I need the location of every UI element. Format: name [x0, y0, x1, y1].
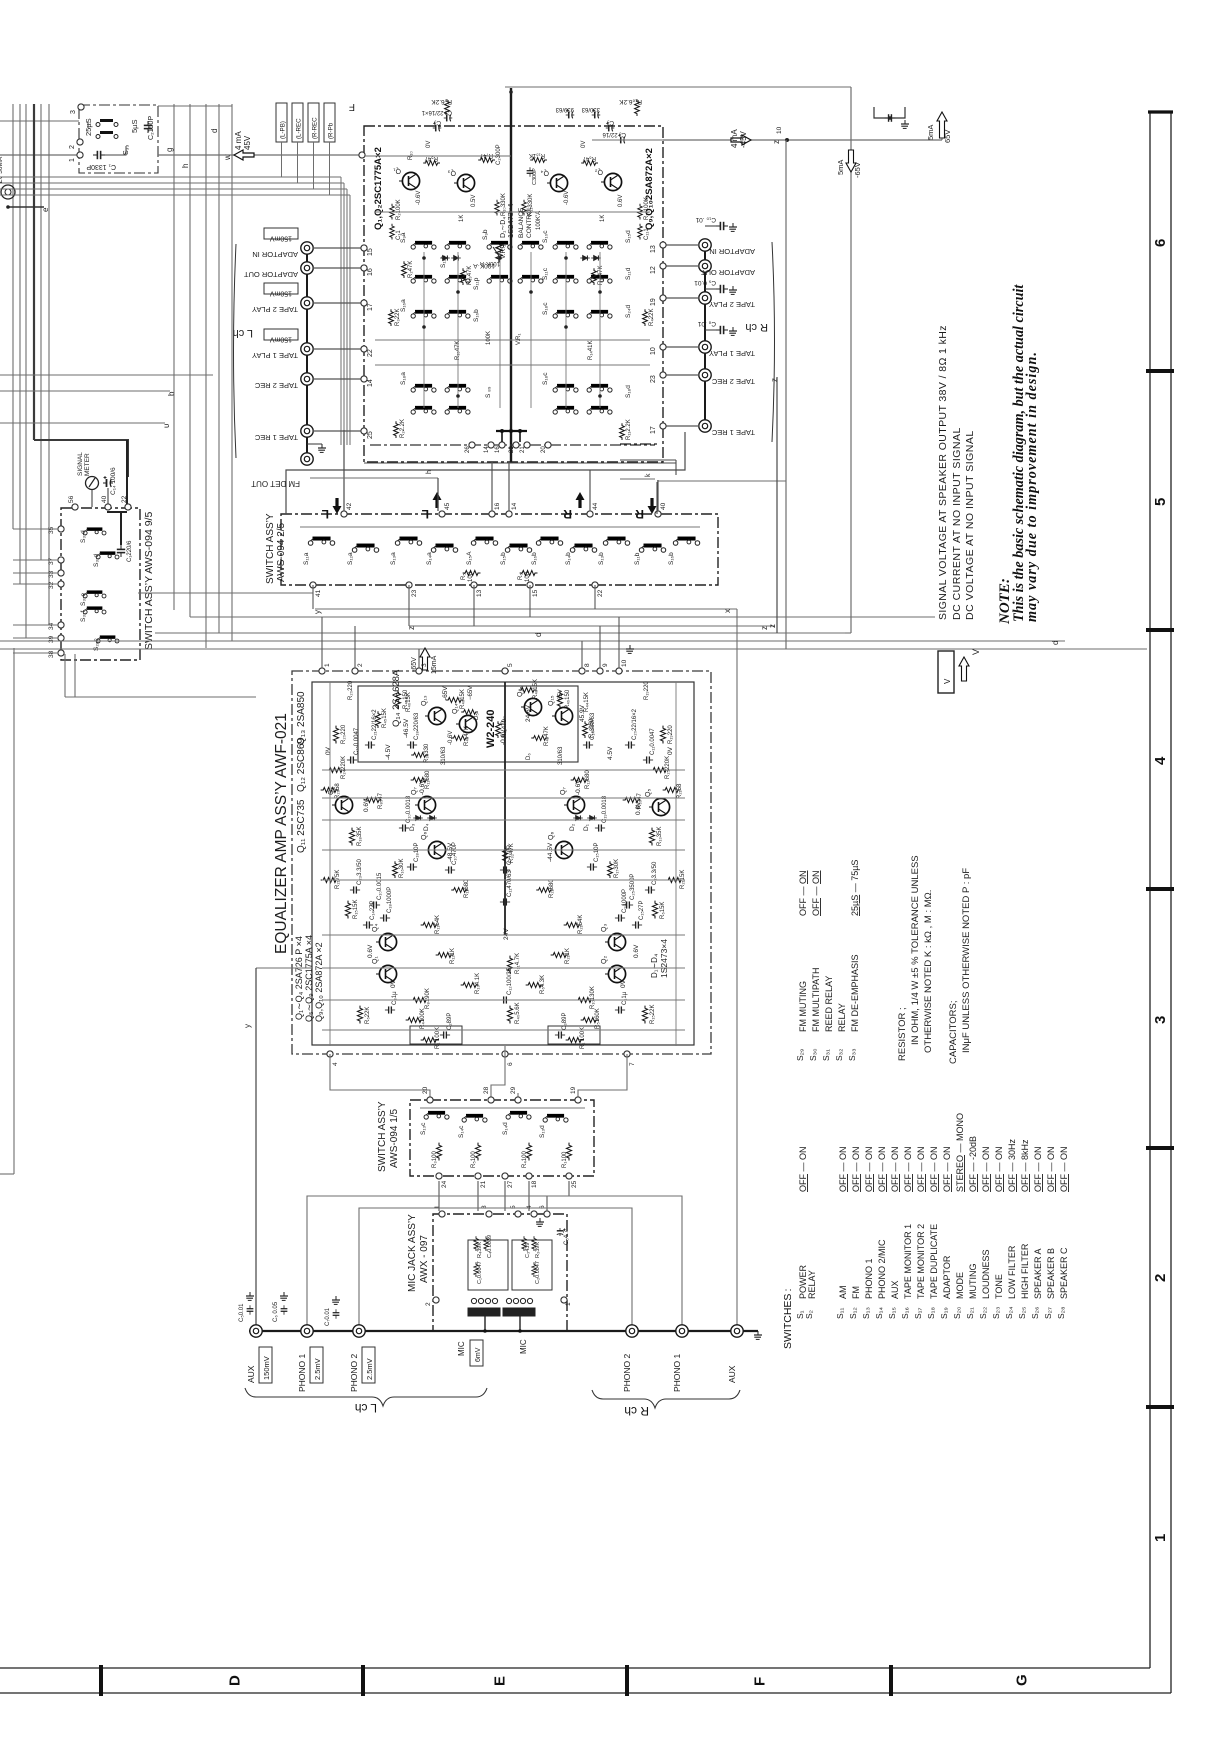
wire [13, 583, 58, 585]
resistor R&#8323;&#8 [507, 956, 512, 974]
svg-text:Q₅: Q₅ [645, 789, 652, 797]
svg-text:R₃₈330: R₃₈330 [424, 743, 430, 763]
svg-text:S₂₈: S₂₈ [1056, 1306, 1066, 1319]
wire [675, 460, 677, 475]
svg-text:RELAY: RELAY [807, 1270, 817, 1299]
wire [158, 105, 232, 107]
wire [322, 1029, 685, 1031]
transistor Q3 [605, 933, 626, 950]
node 16 [489, 511, 495, 517]
svg-text:-0.6V: -0.6V [500, 729, 507, 745]
node 32 [58, 581, 64, 587]
capacitor C&#8321;&# [595, 824, 605, 831]
svg-text:R₇47: R₇47 [479, 152, 493, 158]
wire [589, 470, 591, 511]
wire [477, 1181, 479, 1211]
label 2.5mV [310, 1347, 323, 1383]
svg-text:C₄ 22/16×1: C₄ 22/16×1 [421, 109, 452, 115]
switch contact [587, 275, 612, 283]
svg-text:S₁₄: S₁₄ [874, 1306, 884, 1319]
node 11 [359, 152, 365, 158]
wire [375, 339, 650, 341]
wire [322, 999, 685, 1001]
svg-text:d: d [534, 633, 543, 637]
diode [451, 255, 461, 260]
diode D1 [587, 815, 597, 820]
svg-text:Q₆: Q₆ [548, 832, 555, 840]
wire [313, 430, 364, 432]
svg-text:REED RELAY: REED RELAY [824, 976, 834, 1032]
node 22 [361, 346, 367, 352]
resistor R&#8321; [522, 200, 527, 216]
svg-text:S₁₅b: S₁₅b [500, 552, 507, 565]
resistor R&#8324;&#8 [507, 1006, 512, 1024]
transistor Q14 [456, 715, 477, 732]
svg-text:19: 19 [570, 1086, 577, 1094]
resistor R&#8321; [638, 204, 643, 220]
svg-text:S₃₁: S₃₁ [821, 1049, 831, 1061]
svg-text:150mV: 150mV [262, 1356, 271, 1380]
wire [322, 879, 685, 881]
svg-text:b: b [167, 391, 176, 396]
node 16 [499, 442, 505, 448]
wire [423, 252, 425, 408]
node 39 [58, 635, 64, 641]
diode D4 [427, 815, 437, 820]
wire [364, 462, 676, 464]
svg-text:C₂0.0047: C₂0.0047 [535, 1261, 541, 1284]
signal arrow R [648, 498, 657, 514]
svg-text:−65V: −65V [468, 686, 474, 700]
switch contact [445, 275, 470, 283]
switch contact [518, 275, 543, 283]
svg-text:27: 27 [507, 1180, 514, 1188]
svg-text:Q₁,Q₂2SC1775A×2: Q₁,Q₂2SC1775A×2 [373, 147, 384, 230]
wire [8, 206, 44, 208]
wire [599, 252, 601, 408]
svg-text:Q₁: Q₁ [393, 167, 401, 174]
svg-text:0V: 0V [325, 746, 332, 755]
svg-text:2: 2 [69, 145, 76, 149]
svg-text:R₃22K: R₃22K [395, 309, 401, 326]
svg-text:R₁₃4.1K: R₁₃4.1K [475, 973, 481, 994]
svg-text:R₁₉220: R₁₉220 [644, 681, 650, 700]
transistor Q1 [376, 965, 397, 982]
svg-text:S₂: S₂ [804, 1310, 814, 1319]
resistor R&#8321;&#8 [411, 777, 429, 782]
junction [529, 290, 533, 294]
capacitor 0.01 [716, 285, 728, 293]
svg-text:S₃₂e: S₃₂e [80, 592, 87, 606]
switch contact [487, 275, 512, 283]
svg-text:15: 15 [532, 589, 539, 597]
resistor R&#8321;&#8 [349, 828, 354, 846]
svg-text:y: y [313, 610, 322, 614]
svg-text:R₂₅220K: R₂₅220K [665, 756, 671, 779]
node 40 [105, 504, 111, 510]
svg-text:1S2473×4: 1S2473×4 [506, 204, 515, 238]
svg-text:S₁₁d: S₁₁d [625, 267, 632, 280]
svg-text:3: 3 [70, 110, 77, 114]
svg-text:TAPE 2 REC: TAPE 2 REC [711, 377, 755, 386]
net label (R-REC [308, 103, 319, 142]
resistor R&#8328;190 [411, 997, 429, 1002]
junction [456, 290, 460, 294]
resistor R&#8324;& [583, 721, 588, 738]
switch contact [411, 275, 436, 283]
jack TAPE 2 PLAY L [301, 297, 313, 309]
node 10 [616, 668, 622, 674]
node 1 [439, 1211, 445, 1217]
brace L ch [245, 1388, 487, 1406]
node 42 [341, 511, 347, 517]
svg-text:33: 33 [48, 570, 55, 578]
svg-text:5: 5 [507, 663, 514, 667]
svg-text:DC CURRENT AT NO INPUT SI: DC CURRENT AT NO INPUT SIGNAL [951, 427, 963, 620]
svg-text:100K: 100K [486, 331, 492, 345]
jack AUX [731, 1325, 743, 1337]
part C&#8323; [522, 1236, 526, 1251]
wire [496, 430, 527, 432]
wire [13, 572, 58, 574]
svg-text:22: 22 [597, 589, 604, 597]
svg-text:34: 34 [48, 622, 55, 630]
wire [663, 346, 699, 348]
switch contact [553, 384, 578, 392]
wire [329, 682, 331, 1046]
svg-text:13: 13 [476, 589, 483, 597]
node 23 [660, 372, 666, 378]
node 9 [597, 668, 603, 674]
svg-text:LV 30MA: LV 30MA [0, 156, 4, 183]
resistor R&#8321;&#8 [571, 777, 589, 782]
svg-text:5mA: 5mA [836, 160, 845, 175]
capacitor C&#8322;&# [365, 741, 375, 748]
node 18 [526, 1173, 532, 1179]
svg-text:OFF — ON: OFF — ON [994, 1146, 1004, 1192]
svg-text:4 mA: 4 mA [234, 131, 243, 150]
switch S13c [424, 1111, 449, 1119]
resistor R&#8324;100 [406, 1017, 424, 1022]
svg-text:0.6V: 0.6V [363, 798, 370, 812]
svg-text:35: 35 [48, 526, 55, 534]
resistor R&#8322;&#8 [663, 787, 681, 792]
node 19 [575, 1097, 581, 1103]
resistor R6 100 [520, 570, 538, 575]
resistor R&#8322; [390, 204, 395, 220]
svg-text:OFF — ON: OFF — ON [1033, 1146, 1043, 1192]
svg-text:Q₆: Q₆ [421, 832, 428, 840]
svg-text:z: z [407, 626, 416, 630]
svg-text:R₁₀1K: R₁₀1K [529, 152, 545, 158]
svg-text:2: 2 [357, 663, 364, 667]
svg-text:6: 6 [1152, 239, 1169, 247]
capacitor C5 4.7 [557, 1228, 566, 1236]
svg-text:Q₅∼Q₉ 2SC1775A ×4: Q₅∼Q₉ 2SC1775A ×4 [304, 935, 314, 1022]
svg-text:S₃₂f: S₃₂f [80, 610, 87, 622]
mic amp sub-board L [468, 1240, 508, 1290]
wire [329, 142, 331, 195]
feedback network box L [410, 1026, 462, 1044]
wire [34, 440, 128, 477]
capacitor C2 150P [144, 121, 152, 133]
svg-text:24.6V: 24.6V [525, 704, 532, 722]
wire [343, 183, 345, 445]
svg-text:R₃39K: R₃39K [535, 1242, 541, 1258]
node 2 [352, 668, 358, 674]
svg-text:25: 25 [571, 1180, 578, 1188]
wire [354, 626, 356, 668]
svg-text:AM: AM [838, 1286, 848, 1300]
wire [420, 1107, 585, 1109]
wire [205, 104, 207, 648]
switch S32e [83, 590, 106, 598]
diode D3 [413, 815, 423, 820]
svg-text:65V: 65V [558, 689, 564, 700]
wire [346, 189, 348, 445]
switch S33 contact b [96, 131, 118, 139]
wire [663, 265, 699, 267]
wire [107, 512, 127, 545]
FM de-emphasis assembly box [79, 105, 158, 173]
capacitor C&#8321;&# [587, 863, 597, 870]
svg-text:C₁ 1330P: C₁ 1330P [86, 163, 116, 170]
wire Z [409, 625, 775, 627]
node 3 [416, 668, 422, 674]
wire [519, 431, 521, 442]
node 6 [544, 1211, 550, 1217]
svg-text:C₁220/6: C₁220/6 [127, 540, 133, 562]
svg-text:Q₂: Q₂ [595, 168, 603, 175]
capacitor supply filter [874, 107, 905, 118]
resistor R&#8324;& [496, 721, 501, 738]
capacitor C&#8321;&# [583, 741, 593, 748]
svg-text:0.6V: 0.6V [618, 195, 624, 207]
svg-text:-45V: -45V [739, 130, 748, 148]
svg-text:0V: 0V [667, 746, 674, 755]
svg-text:2: 2 [425, 1302, 432, 1306]
svg-text:C₅0.01: C₅0.01 [239, 1303, 245, 1322]
wire [286, 432, 685, 514]
svg-text:0V: 0V [581, 141, 587, 148]
wire d [155, 632, 845, 634]
capacitor C&#8324; [444, 112, 453, 121]
svg-text:21: 21 [480, 1180, 487, 1188]
svg-text:14: 14 [511, 502, 518, 510]
svg-text:STEREO — MONO: STEREO — MONO [955, 1113, 965, 1192]
wire Z vertical 2 [776, 377, 778, 633]
svg-text:TAPE DUPLICATE: TAPE DUPLICATE [929, 1224, 939, 1299]
resistor R&#8326;15K [652, 901, 657, 919]
transistor Q4 [376, 933, 397, 950]
svg-text:-48.5V: -48.5V [447, 842, 454, 862]
svg-text:OFF — ON: OFF — ON [838, 1146, 848, 1192]
mic connector L [468, 1298, 500, 1316]
capacitor C&#8329;10 [615, 914, 625, 921]
svg-text:AWS-094 2/5: AWS-094 2/5 [276, 522, 287, 582]
node 38 [58, 650, 64, 656]
svg-text:R₆: R₆ [518, 573, 524, 580]
svg-text:R₆4.3K: R₆4.3K [540, 975, 546, 994]
svg-text:OFF — ON: OFF — ON [981, 1146, 991, 1192]
svg-text:100: 100 [525, 571, 531, 582]
wire meter feed [126, 440, 128, 507]
svg-text:C₁₁0.0047: C₁₁0.0047 [650, 728, 656, 755]
svg-text:R₁₈100K: R₁₈100K [644, 197, 650, 220]
svg-text:24V: 24V [503, 928, 510, 940]
svg-text:R₂₄220K: R₂₄220K [341, 756, 347, 779]
svg-text:S₁₁b: S₁₁b [634, 552, 641, 565]
wire [675, 682, 677, 1046]
resistor R&#8324;& [451, 736, 468, 741]
resistor R&#8321; 10 [421, 1037, 439, 1042]
svg-text:S₁₆b: S₁₆b [473, 309, 480, 322]
node 1 [319, 668, 325, 674]
resistor R&#8324;& [531, 736, 548, 741]
svg-text:40: 40 [101, 495, 108, 503]
svg-text:L ch: L ch [233, 327, 253, 339]
svg-text:d: d [1051, 641, 1060, 645]
wire [231, 104, 233, 641]
node 5 [502, 668, 508, 674]
svg-text:(L-PB): (L-PB) [280, 121, 287, 139]
label 2.5mV [362, 1347, 375, 1383]
capacitor C&#8322;&# [350, 886, 360, 893]
svg-text:Q₃: Q₃ [601, 924, 608, 932]
wire [40, 104, 42, 560]
wire [0, 648, 1147, 650]
node 28 [488, 1097, 494, 1103]
svg-text:SPEAKER C: SPEAKER C [1059, 1247, 1069, 1299]
resistor R&#8328;&#8 [364, 797, 382, 802]
svg-text:R₄₅15K: R₄₅15K [382, 708, 388, 728]
svg-text:OFF — ON: OFF — ON [1046, 1146, 1056, 1192]
svg-text:R₄₉150: R₄₉150 [565, 689, 571, 709]
jack ADAPTOR OUT L [301, 262, 313, 274]
svg-text:-4.5V: -4.5V [385, 744, 392, 760]
mic connector R [503, 1298, 535, 1316]
svg-text:Q₁₁ 2SC735: Q₁₁ 2SC735 [296, 799, 307, 853]
wire [74, 654, 76, 697]
switch S13d [543, 1114, 568, 1122]
svg-text:R: R [563, 507, 572, 521]
capacitor C&#8325; [606, 122, 615, 131]
svg-text:C₁₈220/63: C₁₈220/63 [414, 712, 420, 740]
wire [663, 374, 699, 376]
svg-text:S₁₈: S₁₈ [926, 1306, 936, 1319]
wire [297, 142, 299, 183]
resistor R&#8322;&#8 [321, 787, 339, 792]
svg-text:Q₇: Q₇ [411, 787, 418, 795]
svg-text:d: d [210, 129, 219, 133]
wire [173, 104, 175, 610]
switch S15A [471, 537, 497, 546]
svg-text:R₄₈15K: R₄₈15K [533, 679, 539, 699]
wire [13, 652, 58, 654]
wire [618, 617, 620, 668]
svg-text:29: 29 [510, 1086, 517, 1094]
junction [498, 256, 502, 260]
wire [87, 121, 89, 128]
wire [484, 1316, 486, 1331]
resistor R&#8324;&#8 [519, 687, 537, 692]
svg-text:C₁₈10P: C₁₈10P [414, 842, 420, 862]
svg-text:C₃1μ: C₃1μ [392, 991, 398, 1005]
svg-text:PHONO 2: PHONO 2 [349, 1353, 359, 1392]
svg-text:C₂150P: C₂150P [148, 116, 155, 140]
svg-text:OFF — 30Hz: OFF — 30Hz [1007, 1138, 1017, 1192]
svg-text:C₂300P: C₂300P [496, 144, 502, 165]
resistor R&#8321;& [393, 861, 398, 878]
node 40 [655, 511, 661, 517]
capacitor .01 [716, 326, 728, 334]
capacitor C6 0.05 [281, 1305, 288, 1315]
wire h [310, 477, 438, 479]
node 4 [327, 1051, 333, 1057]
node 10 [660, 344, 666, 350]
svg-text:C₁₄ 100/6: C₁₄ 100/6 [110, 467, 117, 495]
svg-text:C₁₁470/63: C₁₁470/63 [507, 870, 513, 897]
node 8 [579, 668, 585, 674]
wire [620, 478, 655, 480]
svg-text:2.5mV: 2.5mV [365, 1358, 374, 1380]
svg-text:υ: υ [162, 424, 171, 428]
capacitor C&#8321;&# [632, 921, 642, 928]
svg-text:C300P: C300P [532, 168, 538, 185]
svg-text:C₉ 0.01: C₉ 0.01 [694, 279, 716, 286]
svg-text:S₁₆b: S₁₆b [668, 552, 675, 565]
svg-text:14: 14 [484, 446, 490, 453]
connector LV 30mA [1, 185, 15, 199]
switch contact [487, 241, 512, 249]
svg-text:OFF — ON: OFF — ON [851, 1146, 861, 1192]
svg-text:6mV: 6mV [475, 1347, 482, 1362]
svg-text:TONE: TONE [994, 1274, 1004, 1299]
svg-text:MODE: MODE [955, 1272, 965, 1299]
transistor Q5 [332, 796, 353, 813]
svg-text:37: 37 [48, 557, 55, 565]
svg-text:OFF — ON: OFF — ON [890, 1146, 900, 1192]
resistor R&#8324;& [376, 711, 381, 728]
wire [408, 585, 410, 626]
svg-text:V: V [943, 678, 952, 684]
svg-text:D₅: D₅ [474, 713, 480, 720]
node 13 [471, 582, 477, 588]
svg-text:S₃₀: S₃₀ [808, 1048, 818, 1061]
wire [491, 1046, 505, 1100]
junction [598, 290, 602, 294]
wire [565, 252, 567, 408]
label 6mV [470, 1340, 483, 1366]
diode [580, 255, 590, 260]
svg-text:Q₉,Q₁₀ 2SA872A ×2: Q₉,Q₁₀ 2SA872A ×2 [314, 942, 324, 1022]
svg-text:TAPE 1 REC: TAPE 1 REC [254, 433, 298, 442]
wire [0, 154, 80, 156]
switch contact [445, 241, 470, 249]
svg-text:R₅: R₅ [461, 573, 467, 580]
jack PHONO 2 [353, 1325, 365, 1337]
wire [501, 431, 503, 442]
svg-text:(R-Pb: (R-Pb [328, 122, 335, 139]
transistor Q7 [415, 796, 436, 813]
capacitor C7 0.01 [333, 1309, 340, 1319]
svg-text:R₄22K: R₄22K [649, 309, 655, 326]
label 150mV [259, 1347, 272, 1383]
svg-text:R₆47: R₆47 [582, 155, 596, 161]
svg-text:R₄₆15K: R₄₆15K [460, 689, 466, 709]
wire [663, 425, 699, 427]
power arrow 5mA -65V [846, 150, 856, 172]
